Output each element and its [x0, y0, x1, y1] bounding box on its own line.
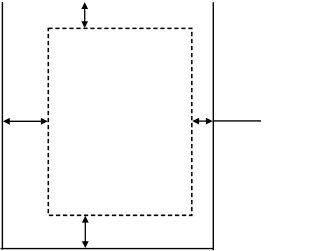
top margin arrow (double-headed, vertical) [81, 2, 88, 28]
printable-area dashed rectangle [48, 28, 192, 215]
right margin arrow (double-headed, horizontal) [192, 118, 213, 125]
page bottom edge [1, 248, 215, 250]
left margin arrow (double-headed, horizontal) [3, 118, 48, 125]
leader line extending right from page edge [213, 120, 261, 122]
bottom margin arrow (double-headed, vertical) [82, 216, 89, 248]
page right edge [212, 2, 214, 250]
page left edge [1, 2, 3, 250]
